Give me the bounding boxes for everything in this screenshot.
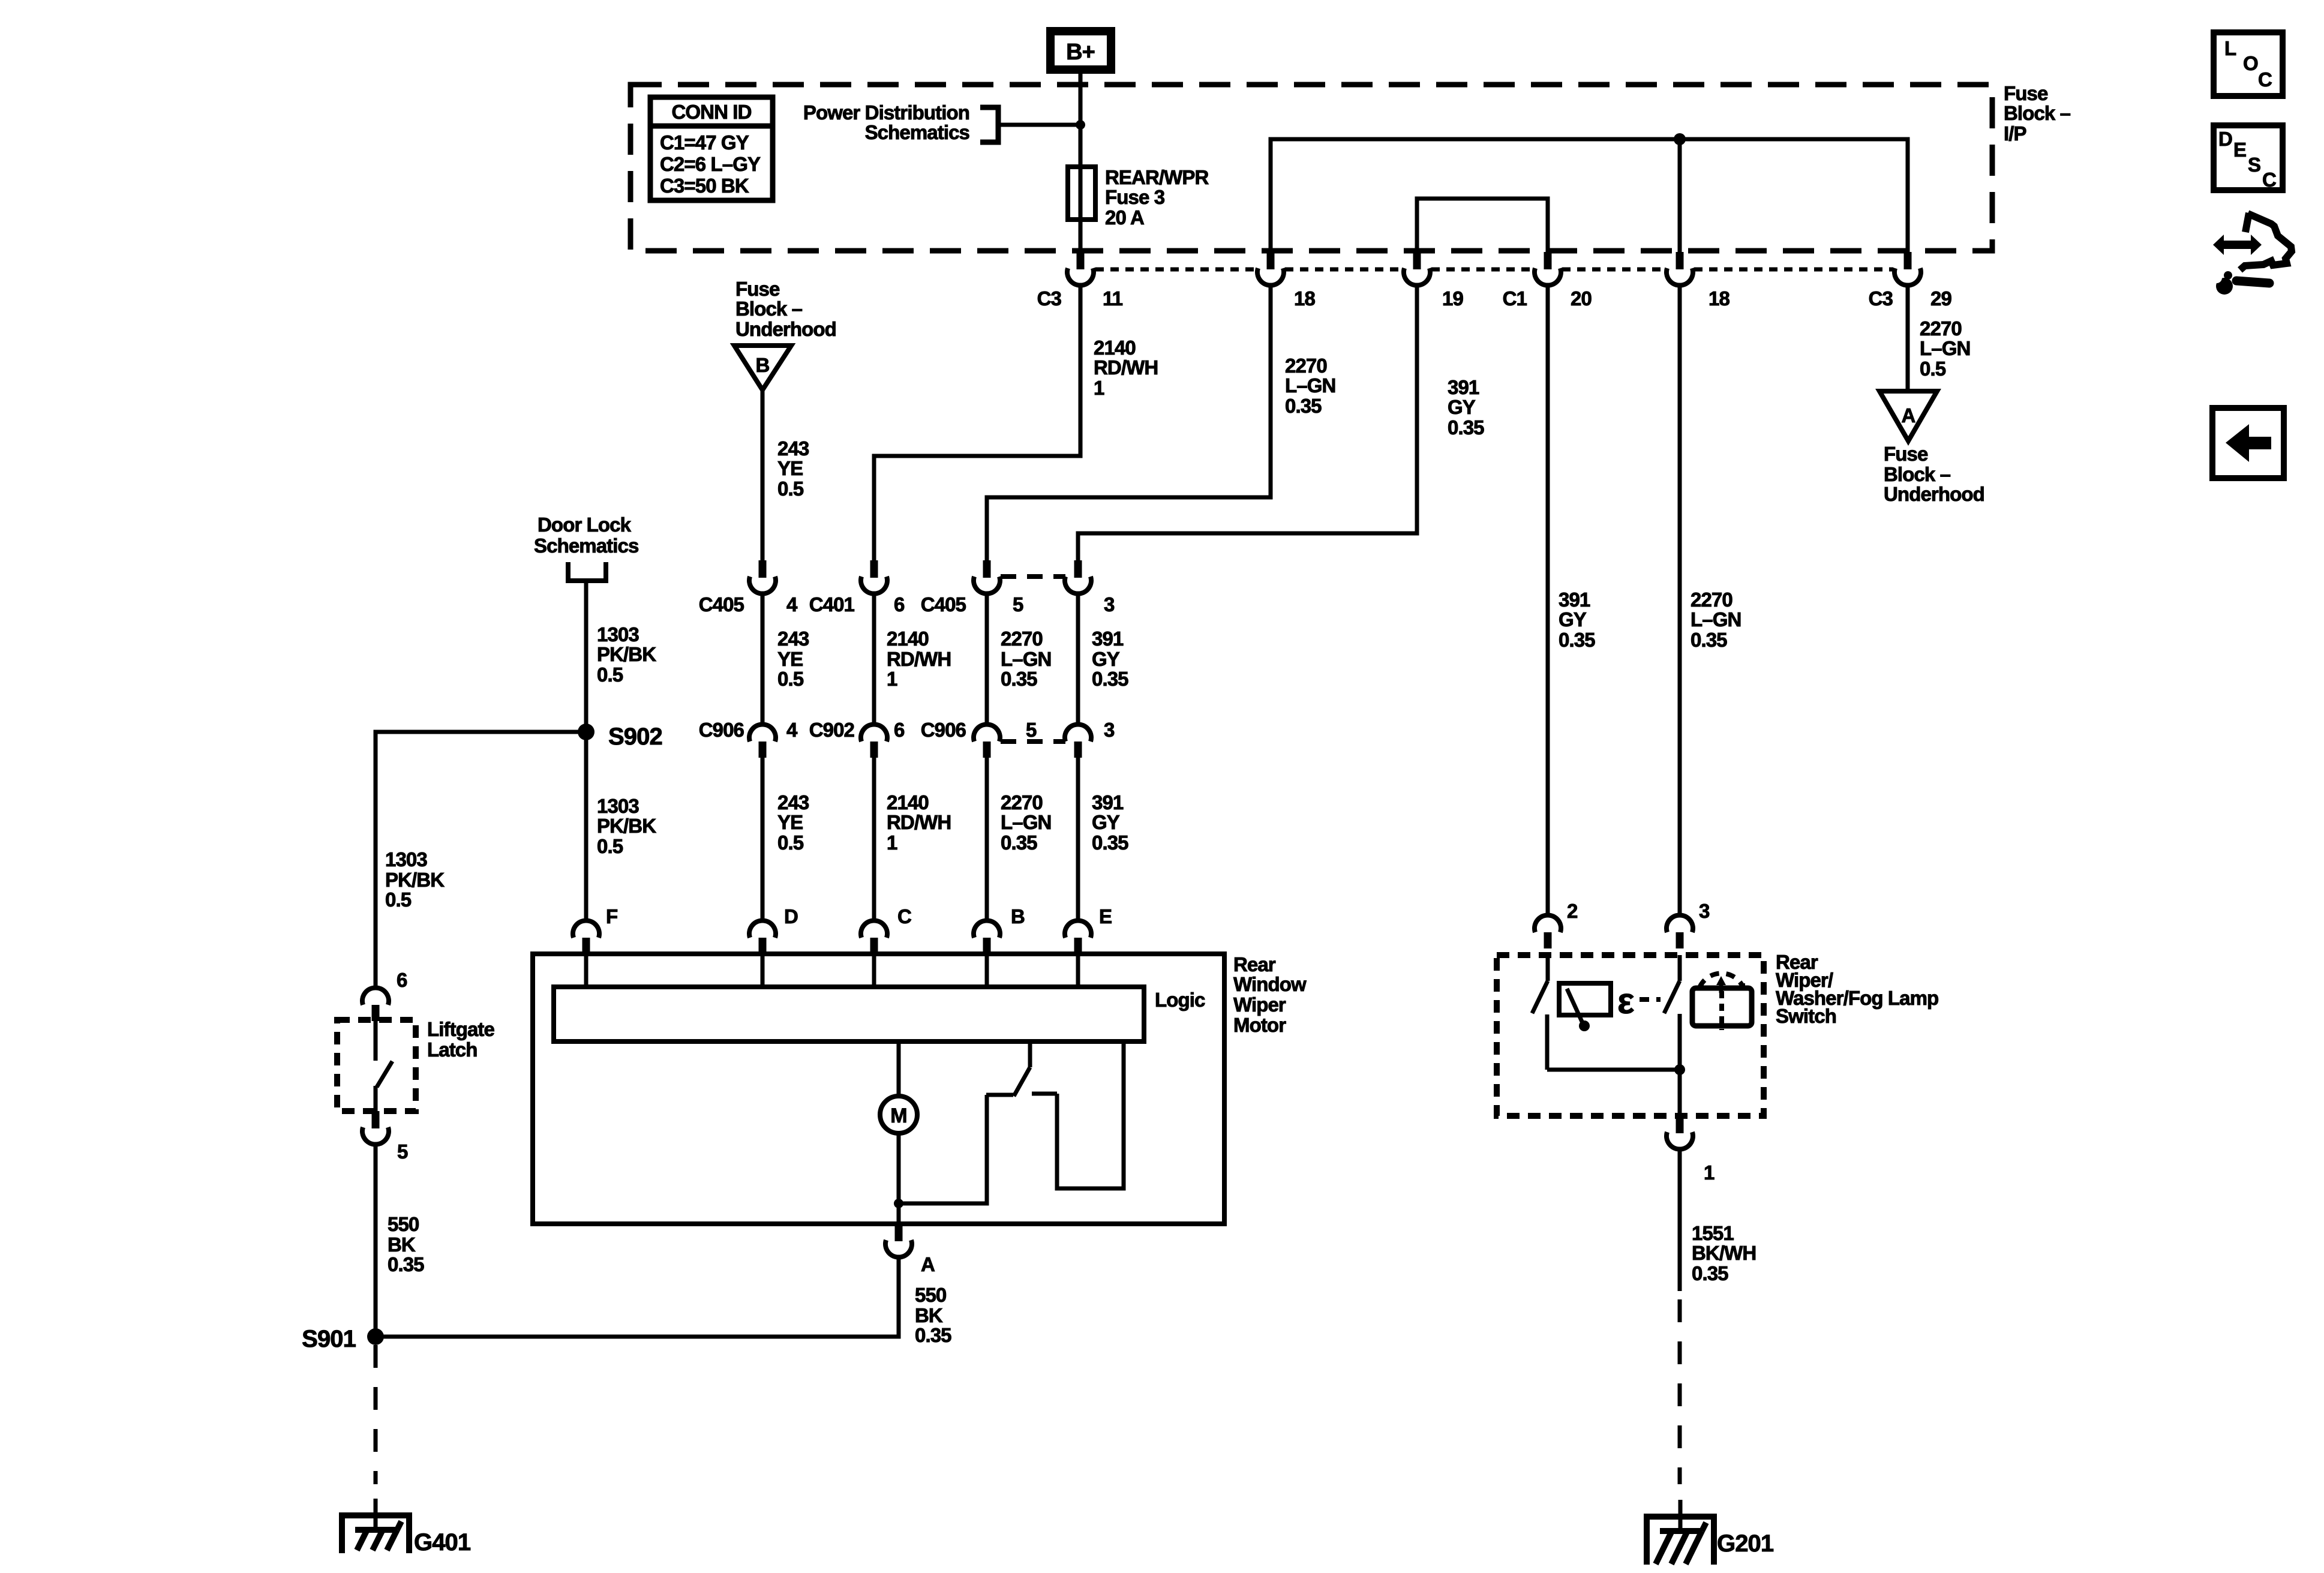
motor pin F — [573, 920, 599, 938]
node: rail junction — [1674, 133, 1686, 145]
svg-text:E: E — [1099, 905, 1112, 927]
logic module box — [554, 987, 1144, 1041]
svg-text:2270: 2270 — [1285, 355, 1327, 377]
svg-text:BK/WH: BK/WH — [1692, 1242, 1756, 1264]
svg-text:6: 6 — [397, 969, 407, 991]
wire: S901 to ground G401 (dashed) — [374, 1345, 378, 1484]
connector C906 pin 4 — [749, 724, 776, 742]
connector pin 18 (left) — [1267, 252, 1275, 269]
wire 1551 BK/WH 0.35 (switch to ground) — [1678, 1149, 1682, 1291]
svg-text:L: L — [2224, 37, 2236, 59]
svg-text:2140: 2140 — [887, 628, 929, 650]
liftgate latch switch — [374, 1021, 378, 1061]
connector C3 pin 11 — [1077, 252, 1085, 269]
svg-text:3: 3 — [1104, 719, 1115, 741]
splice S902 — [578, 724, 594, 740]
fog lamp icon — [1692, 988, 1752, 1026]
svg-text:Power Distribution: Power Distribution — [803, 101, 969, 124]
svg-text:Block –: Block – — [1884, 463, 1951, 485]
svg-text:L–GN: L–GN — [1001, 648, 1051, 670]
svg-text:0.35: 0.35 — [1285, 395, 1322, 417]
svg-text:YE: YE — [777, 648, 803, 670]
svg-text:Logic: Logic — [1155, 989, 1205, 1011]
svg-text:5: 5 — [1026, 719, 1037, 741]
svg-text:C405: C405 — [921, 593, 966, 616]
fuse REAR/WPR Fuse 3 20 A — [1079, 169, 1083, 220]
svg-text:CONN ID: CONN ID — [671, 101, 751, 123]
icon: LOC box — [2214, 32, 2283, 96]
svg-text:20: 20 — [1571, 287, 1592, 310]
svg-text:A: A — [1902, 404, 1915, 427]
wire: S901 to motor pin A — [376, 1259, 899, 1337]
svg-text:C906: C906 — [921, 719, 966, 741]
switch pin 2 — [1535, 915, 1561, 932]
svg-text:C3: C3 — [1037, 287, 1062, 310]
svg-text:Motor: Motor — [1233, 1014, 1286, 1036]
connector body dashes row 2 — [1001, 739, 1065, 744]
svg-text:6: 6 — [894, 719, 905, 741]
svg-text:0.35: 0.35 — [1092, 668, 1128, 690]
park switch right contact — [1032, 1092, 1057, 1096]
svg-text:2: 2 — [1567, 900, 1578, 922]
svg-text:C3: C3 — [1869, 287, 1893, 310]
svg-text:20 A: 20 A — [1105, 206, 1144, 229]
svg-text:2270: 2270 — [1920, 317, 1962, 340]
svg-text:0.35: 0.35 — [1001, 668, 1037, 690]
svg-text:1551: 1551 — [1692, 1222, 1734, 1244]
wire 1303 PK/BK 0.5 (S902 to motor pin F) — [584, 732, 588, 920]
svg-text:0.5: 0.5 — [597, 664, 623, 686]
connector C401 pin 6 — [870, 560, 878, 578]
svg-text:0.35: 0.35 — [388, 1253, 424, 1275]
svg-text:0.35: 0.35 — [1691, 629, 1727, 651]
svg-text:2270: 2270 — [1001, 791, 1043, 813]
connector C1 pin 20 — [1544, 252, 1552, 269]
wire 2270 L-GN 0.35 (C405-C906 segment) — [985, 594, 989, 724]
svg-text:C1=47 GY: C1=47 GY — [660, 131, 749, 154]
wire: node to motor pin A — [897, 1203, 901, 1224]
svg-text:3: 3 — [1104, 593, 1115, 616]
motor pin A — [895, 1224, 903, 1241]
motor pin D — [749, 920, 776, 938]
svg-text:1: 1 — [1704, 1161, 1715, 1184]
wire to motor pin C — [872, 758, 876, 920]
svg-text:L–GN: L–GN — [1001, 811, 1051, 833]
connector C3 pin 29 — [1904, 252, 1912, 269]
icon: DESC box — [2214, 125, 2283, 190]
ground G401 — [342, 1515, 409, 1553]
wire 1303 PK/BK 0.5 (upper) — [584, 581, 588, 732]
wire: rail drop to pin 18 — [1678, 139, 1682, 252]
svg-text:11: 11 — [1103, 287, 1123, 310]
svg-text:I/P: I/P — [2004, 122, 2026, 145]
svg-text:0.5: 0.5 — [1920, 358, 1946, 380]
connector pin 18 (right) — [1676, 252, 1684, 269]
svg-text:L–GN: L–GN — [1920, 337, 1970, 359]
switch pin 3 — [1667, 915, 1693, 932]
svg-text:0.5: 0.5 — [385, 888, 412, 911]
wire: tap to reference bracket — [998, 123, 1080, 127]
svg-text:1303: 1303 — [597, 623, 639, 646]
icon: back arrow box — [2212, 408, 2284, 478]
svg-text:C: C — [2258, 68, 2272, 91]
svg-text:S902: S902 — [608, 724, 662, 750]
node: motor return junction — [894, 1199, 903, 1208]
svg-text:GY: GY — [1092, 648, 1120, 670]
svg-text:Window: Window — [1233, 973, 1307, 995]
svg-text:Schematics: Schematics — [534, 535, 638, 557]
wire 2140 RD/WH 1 (C3-11 to C401-6) — [874, 286, 1080, 560]
wire 391 GY 0.35 (pin3 segment) — [1076, 594, 1080, 724]
svg-text:L–GN: L–GN — [1691, 608, 1741, 631]
svg-text:Door Lock: Door Lock — [538, 514, 632, 536]
svg-text:5: 5 — [397, 1140, 408, 1163]
svg-text:G201: G201 — [1717, 1530, 1774, 1557]
CONN ID table — [650, 97, 773, 200]
svg-text:18: 18 — [1294, 287, 1315, 310]
wire 243 YE 0.5 (C405-C906 segment) — [761, 594, 765, 724]
svg-text:243: 243 — [777, 628, 809, 650]
svg-text:Rear: Rear — [1233, 953, 1276, 975]
connector C906 pin 5 — [974, 724, 1000, 742]
svg-text:2140: 2140 — [1094, 337, 1136, 359]
svg-text:4: 4 — [786, 719, 798, 741]
wire 2270 L-GN 0.5 to underhood fuse block — [1906, 286, 1910, 394]
wire 2270 L-GN 0.35 (pin18 to C405-5) — [987, 286, 1271, 560]
wire: motor to node — [897, 1133, 901, 1203]
svg-text:D: D — [2218, 128, 2232, 150]
connector pin 19 — [1413, 252, 1421, 269]
connector C405 pin 5 — [983, 560, 991, 578]
svg-text:C1: C1 — [1503, 287, 1527, 310]
svg-text:1303: 1303 — [597, 795, 639, 817]
svg-text:6: 6 — [894, 593, 905, 616]
svg-text:RD/WH: RD/WH — [887, 811, 951, 833]
icon: vehicle view with arrow — [2213, 235, 2262, 255]
svg-text:E: E — [2233, 139, 2246, 161]
battery feed B+ symbol — [1050, 31, 1111, 70]
svg-text:Block –: Block – — [735, 298, 803, 320]
svg-text:29: 29 — [1930, 287, 1951, 310]
svg-text:391: 391 — [1448, 376, 1479, 398]
svg-text:C405: C405 — [699, 593, 744, 616]
wire: dashed to ground G201 — [1678, 1299, 1682, 1484]
wires pins to logic module — [584, 954, 588, 987]
svg-text:B: B — [756, 354, 770, 376]
connector pin 3 (row 1) — [1074, 560, 1082, 578]
svg-text:19: 19 — [1442, 287, 1463, 310]
connector pin 6 (liftgate latch) — [362, 987, 389, 1005]
svg-text:PK/BK: PK/BK — [597, 815, 656, 837]
svg-text:O: O — [2243, 52, 2258, 74]
wire 2140 RD/WH 1 (C401-C902 segment) — [872, 594, 876, 724]
splice S901 — [367, 1328, 384, 1345]
wire to motor pin B — [985, 758, 989, 920]
svg-text:BK: BK — [915, 1304, 943, 1326]
svg-text:0.35: 0.35 — [1692, 1262, 1728, 1284]
svg-text:18: 18 — [1709, 287, 1730, 310]
svg-text:0.35: 0.35 — [1448, 416, 1484, 439]
svg-text:550: 550 — [915, 1284, 946, 1306]
svg-text:C: C — [2262, 169, 2276, 191]
svg-text:B+: B+ — [1066, 40, 1095, 65]
rear window wiper motor box — [533, 954, 1224, 1224]
svg-text:Fuse 3: Fuse 3 — [1105, 186, 1165, 208]
svg-text:PK/BK: PK/BK — [597, 643, 656, 665]
svg-text:1303: 1303 — [385, 848, 427, 870]
connector pin 5 (liftgate latch) — [372, 1111, 380, 1128]
svg-text:0.5: 0.5 — [777, 831, 804, 854]
svg-text:1: 1 — [1094, 377, 1104, 399]
svg-text:2270: 2270 — [1691, 589, 1733, 611]
svg-text:RD/WH: RD/WH — [1094, 356, 1158, 379]
svg-text:GY: GY — [1448, 396, 1476, 418]
svg-text:Schematics: Schematics — [865, 121, 969, 143]
svg-text:C902: C902 — [809, 719, 855, 741]
svg-text:3: 3 — [1699, 900, 1710, 922]
liftgate latch dashed box — [337, 1020, 416, 1111]
svg-text:Underhood: Underhood — [735, 318, 836, 340]
svg-text:YE: YE — [777, 457, 803, 479]
connector pin 3 (row 2) — [1065, 724, 1091, 742]
svg-text:0.5: 0.5 — [777, 668, 804, 690]
wire 243 YE 0.5 (triangle B to C405-4) — [761, 390, 765, 560]
svg-text:G401: G401 — [414, 1529, 471, 1556]
svg-text:M: M — [890, 1104, 906, 1127]
svg-text:C: C — [897, 905, 911, 927]
switch output wire — [1545, 1014, 1550, 1070]
svg-text:4: 4 — [786, 593, 798, 616]
svg-text:0.5: 0.5 — [597, 835, 623, 857]
wire: logic to motor — [897, 1041, 901, 1097]
svg-text:C2=6 L–GY: C2=6 L–GY — [660, 153, 761, 175]
svg-text:2140: 2140 — [887, 791, 929, 813]
svg-text:Fuse: Fuse — [1884, 443, 1928, 465]
rear wiper icon — [1559, 983, 1611, 1015]
svg-text:PK/BK: PK/BK — [385, 869, 445, 891]
svg-text:L–GN: L–GN — [1285, 374, 1335, 397]
svg-text:Liftgate: Liftgate — [427, 1018, 495, 1040]
wiper switch blade (left) — [1546, 955, 1550, 981]
svg-text:0.35: 0.35 — [1092, 831, 1128, 854]
svg-text:243: 243 — [777, 437, 809, 460]
switch pin 1 — [1676, 1116, 1684, 1133]
triangle connector B (Fuse Block - Underhood) — [734, 346, 791, 390]
jumper wire pins 19-20 — [1417, 199, 1548, 252]
svg-text:Latch: Latch — [427, 1038, 478, 1061]
svg-text:391: 391 — [1559, 589, 1590, 611]
svg-text:Block –: Block – — [2004, 102, 2071, 124]
rear wiper/washer/fog lamp switch dashed box — [1497, 955, 1764, 1116]
reference bracket: Power Distribution Schematics — [980, 107, 998, 142]
wire 550 BK 0.35 (latch to S901) — [374, 1145, 378, 1337]
svg-text:D: D — [784, 905, 798, 927]
bus rail inside fuse block — [1271, 139, 1908, 252]
svg-text:1: 1 — [887, 831, 897, 854]
wire 1303 PK/BK 0.5 (S902 to liftgate latch) — [376, 732, 586, 987]
wire: fuse to connector C3-11 — [1079, 220, 1083, 252]
svg-text:B: B — [1011, 905, 1025, 927]
fog lamp switch blade (right) — [1678, 955, 1682, 981]
svg-text:1: 1 — [887, 668, 897, 690]
node: power distribution tap — [1076, 120, 1085, 130]
svg-text:GY: GY — [1092, 811, 1120, 833]
svg-text:0.35: 0.35 — [1001, 831, 1037, 854]
svg-text:A: A — [921, 1253, 935, 1275]
svg-text:391: 391 — [1092, 791, 1124, 813]
svg-text:2270: 2270 — [1001, 628, 1043, 650]
connector C405 pin 4 — [759, 560, 767, 578]
motor pin E — [1065, 920, 1091, 938]
svg-text:F: F — [606, 905, 617, 927]
svg-text:C3=50 BK: C3=50 BK — [660, 175, 749, 197]
icon: wrench — [2236, 281, 2269, 283]
connector row dotted line (fuse block bottom) — [1095, 268, 1256, 272]
svg-text:REAR/WPR: REAR/WPR — [1105, 166, 1209, 188]
svg-text:RD/WH: RD/WH — [887, 648, 951, 670]
motor pin C — [861, 920, 887, 938]
park switch left contact — [986, 1093, 1013, 1097]
svg-text:0.5: 0.5 — [777, 478, 804, 500]
svg-text:S901: S901 — [302, 1326, 356, 1352]
svg-text:GY: GY — [1559, 608, 1587, 631]
connector C902 pin 6 — [861, 724, 887, 742]
svg-text:S: S — [2248, 154, 2260, 176]
svg-text:550: 550 — [388, 1213, 419, 1235]
motor pin B — [974, 920, 1000, 938]
wire 391 GY 0.35 (pin19 to pin3) — [1078, 286, 1417, 560]
svg-text:Wiper: Wiper — [1233, 993, 1286, 1016]
triangle connector A (Fuse Block - Underhood) — [1879, 391, 1937, 441]
wire: B+ down to fuse — [1079, 70, 1083, 169]
svg-text:Switch: Switch — [1776, 1005, 1836, 1027]
svg-text:5: 5 — [1013, 593, 1023, 616]
node: switch output junction — [1674, 1064, 1685, 1075]
svg-text:Fuse: Fuse — [2004, 82, 2048, 104]
svg-text:0.35: 0.35 — [915, 1324, 951, 1346]
wire to motor pin D — [761, 758, 765, 920]
svg-text:YE: YE — [777, 811, 803, 833]
motor M — [880, 1096, 917, 1133]
svg-text:0.35: 0.35 — [1559, 629, 1595, 651]
connector body dashes row 1 — [1001, 574, 1065, 579]
svg-text:C401: C401 — [809, 593, 855, 616]
svg-text:391: 391 — [1092, 628, 1124, 650]
svg-text:C906: C906 — [699, 719, 744, 741]
svg-text:ε: ε — [1617, 981, 1634, 1021]
park switch blade — [1028, 1041, 1032, 1067]
svg-text:Fuse: Fuse — [735, 278, 780, 300]
ground G201 — [1647, 1517, 1714, 1565]
svg-text:BK: BK — [388, 1233, 416, 1256]
svg-text:243: 243 — [777, 791, 809, 813]
svg-text:Underhood: Underhood — [1884, 483, 1984, 505]
wire 2270 L-GN 0.35 (pin18 to switch pin 3) — [1678, 286, 1682, 915]
wire to motor pin E — [1076, 758, 1080, 920]
fuse block I/P dashed box — [630, 85, 1992, 251]
wire 391 GY 0.35 (C1-20 to switch pin 2) — [1546, 286, 1550, 915]
